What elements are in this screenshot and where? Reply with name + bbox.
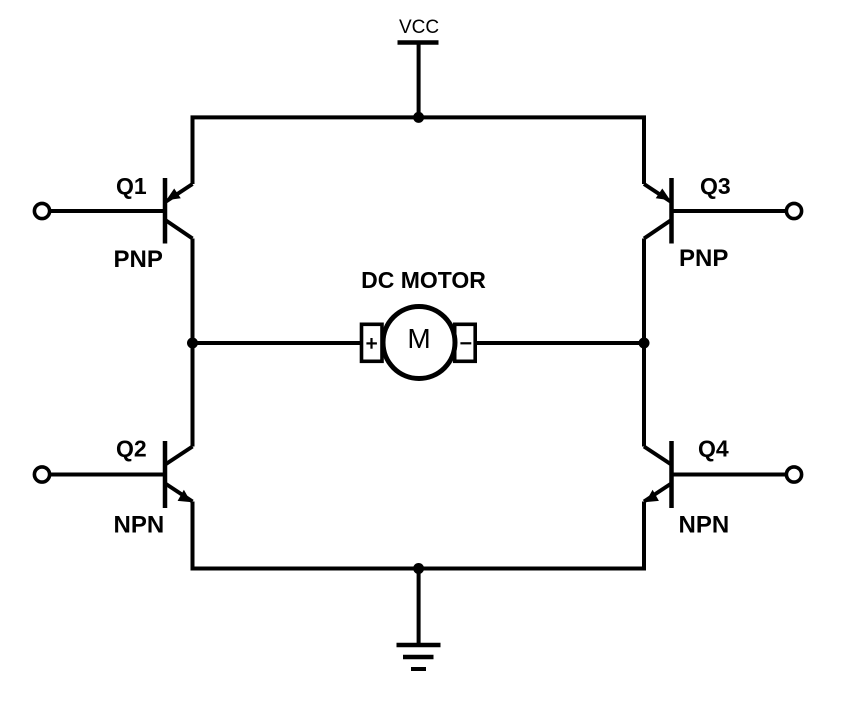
transistor Q2: [165, 441, 193, 508]
wire Q3 base: [672, 209, 787, 213]
node A (left motor node): [187, 338, 198, 349]
svg-text:NPN: NPN: [679, 512, 730, 539]
svg-text:PNP: PNP: [114, 246, 163, 273]
svg-text:VCC: VCC: [399, 17, 439, 38]
wire Q2 emitter to bottom rail: [191, 502, 195, 569]
ground: [397, 645, 441, 669]
svg-text:M: M: [407, 323, 430, 354]
node VCC junction: [413, 112, 424, 123]
wire Q4 emitter to bottom rail: [642, 502, 646, 569]
svg-text:Q4: Q4: [698, 436, 729, 462]
label Q2: [116, 436, 147, 462]
terminal Q1 base input: [34, 203, 49, 218]
wire Q4 base: [672, 473, 787, 477]
label Q1: [116, 173, 147, 199]
wire Q2 collector to left node: [191, 343, 195, 447]
svg-text:DC MOTOR: DC MOTOR: [361, 267, 486, 293]
svg-text:Q3: Q3: [700, 173, 731, 199]
wire left node to motor: [193, 341, 362, 345]
wire bottom rail: [193, 502, 645, 569]
VCC label: [399, 17, 439, 38]
motor M1: [362, 307, 476, 379]
transistor Q1: [165, 178, 193, 244]
svg-text:PNP: PNP: [679, 245, 728, 272]
terminal Q2 base input: [34, 467, 49, 482]
wire top rail: [193, 117, 645, 184]
wire Q1 collector to left node: [191, 239, 195, 344]
svg-text:Q1: Q1: [116, 173, 147, 199]
wire Q3 collector to right node: [642, 239, 646, 344]
label NPN (Q2): [114, 512, 165, 539]
svg-text:Q2: Q2: [116, 436, 147, 462]
transistor Q3: [644, 178, 672, 244]
label PNP (Q3): [679, 245, 728, 272]
label DC MOTOR: [361, 267, 486, 293]
label NPN (Q4): [679, 512, 730, 539]
wire Q4 collector to right node: [642, 343, 646, 447]
VCC power symbol: [398, 43, 439, 118]
svg-text:NPN: NPN: [114, 512, 165, 539]
terminal Q3 base input: [786, 203, 801, 218]
terminal Q4 base input: [786, 467, 801, 482]
transistor Q4: [644, 441, 672, 508]
wire Q2 base: [50, 473, 165, 477]
wire Q1 base: [50, 209, 165, 213]
wire motor to right node: [476, 341, 645, 345]
node B (right motor node): [639, 338, 650, 349]
label Q3: [700, 173, 731, 199]
label PNP (Q1): [114, 246, 163, 273]
label Q4: [698, 436, 729, 462]
wire ground stem: [417, 569, 421, 646]
node ground junction: [413, 563, 424, 574]
